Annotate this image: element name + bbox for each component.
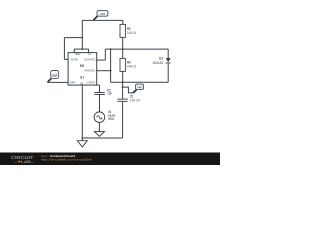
svg-text:http://circuitlab.com/cmzy65ef: http://circuitlab.com/cmzy65ef [41, 157, 92, 161]
svg-text:RESET: RESET [75, 52, 81, 56]
svg-text:OUTPUT: OUTPUT [69, 80, 76, 84]
svg-text:140 Ω: 140 Ω [127, 64, 136, 68]
svg-text:555: 555 [80, 64, 84, 68]
svg-text:1 µF: 1 µF [107, 92, 112, 96]
svg-text:100 nF: 100 nF [130, 99, 140, 103]
svg-text:–✦LAB–: –✦LAB– [14, 160, 33, 164]
svg-text:140 Ω: 140 Ω [127, 31, 136, 35]
svg-text:CONTROL: CONTROL [86, 80, 96, 84]
svg-text:GND: GND [80, 82, 84, 86]
svg-text:5 kHz: 5 kHz [108, 117, 115, 121]
svg-text:+5V: +5V [100, 12, 105, 16]
svg-text:cap: cap [137, 85, 142, 89]
svg-text:1N4148: 1N4148 [152, 61, 163, 65]
svg-text:DISCHARGE: DISCHARGE [84, 58, 96, 62]
svg-text:TRIGGER: TRIGGER [70, 57, 78, 61]
svg-text:C1: C1 [130, 94, 134, 98]
svg-text:D2: D2 [159, 57, 163, 61]
svg-text:VCC: VCC [88, 52, 92, 56]
svg-text:U1: U1 [80, 75, 84, 79]
svg-text:THRESHOLD: THRESHOLD [84, 69, 96, 73]
